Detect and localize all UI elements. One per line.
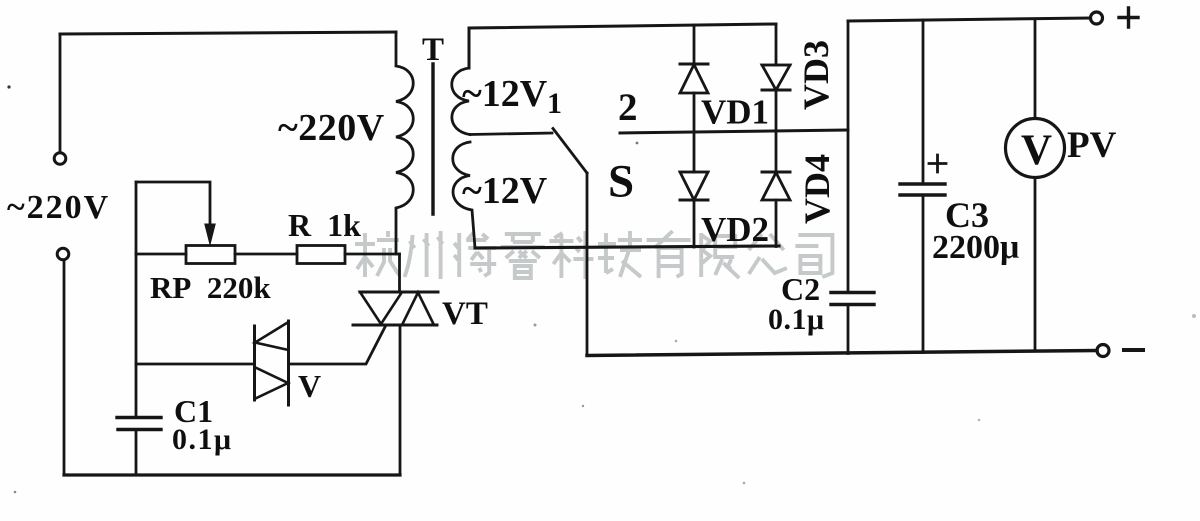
svg-text:0.1μ: 0.1μ: [172, 423, 233, 456]
scan speck: [7, 85, 1196, 493]
wire DC minus rail: [587, 351, 1097, 356]
transformer core: [431, 64, 434, 214]
wire RP left lead: [136, 253, 186, 256]
terminal plus: [1091, 12, 1103, 24]
wire PV column top: [1034, 19, 1037, 119]
wire C1 bottom lead: [135, 430, 138, 476]
diode VD3: [762, 65, 790, 90]
svg-text:1: 1: [547, 87, 562, 120]
wire VD1 to middle: [693, 93, 696, 172]
transformer secondary upper winding: [452, 68, 470, 135]
wire C2 bottom lead: [847, 305, 850, 354]
minus sign: [1124, 348, 1143, 352]
svg-text:~12V: ~12V: [462, 73, 548, 115]
wire RP to R: [235, 253, 297, 256]
wire RP wiper loop: [136, 182, 210, 227]
svg-text:~220V: ~220V: [278, 107, 385, 149]
svg-text:2200μ: 2200μ: [932, 229, 1019, 266]
wire VD3 to middle: [775, 90, 778, 172]
wire C2 top lead: [847, 130, 850, 292]
wire VD2 bottom: [693, 200, 696, 247]
resistor R body: [297, 246, 345, 264]
svg-text:~220V: ~220V: [7, 189, 110, 226]
wire VD3 column top: [775, 24, 778, 65]
svg-text:VT: VT: [442, 296, 488, 332]
wire VD4 bottom: [775, 200, 778, 247]
svg-text:S: S: [608, 156, 634, 208]
transformer secondary top corner: [469, 24, 776, 68]
diac V: [255, 321, 289, 405]
wire VD1 column top: [693, 25, 696, 64]
svg-text:RP 220k: RP 220k: [150, 270, 271, 305]
svg-text:2: 2: [618, 86, 638, 129]
wire triac bottom lead: [399, 325, 402, 475]
wire C3 column top: [922, 20, 925, 184]
svg-text:V: V: [1021, 127, 1052, 174]
capacitor C1: [117, 418, 161, 430]
triac VT: [353, 292, 438, 325]
diode VD1: [680, 64, 708, 93]
voltmeter PV: [1006, 119, 1065, 178]
diode VD4: [762, 172, 790, 200]
diode VD2: [680, 172, 708, 200]
wire DC plus corner and C2 column: [847, 21, 850, 130]
wire left input drop lower: [63, 260, 66, 475]
wire R right lead: [345, 253, 400, 256]
terminal minus: [1097, 345, 1109, 357]
capacitor C3 polarized: [900, 155, 946, 195]
svg-text:R 1k: R 1k: [288, 207, 361, 243]
svg-text:V: V: [298, 368, 321, 404]
transformer secondary lower winding: [453, 142, 475, 248]
wire main vertical to triac: [398, 254, 401, 292]
wire bottom left rail: [64, 473, 400, 476]
capacitor C2: [831, 293, 874, 305]
svg-text:VD2: VD2: [701, 210, 769, 249]
wire switch vertical: [586, 173, 589, 356]
svg-text:VD1: VD1: [701, 93, 769, 132]
svg-text:~12V: ~12V: [462, 170, 548, 212]
wire center tap to contact 1: [470, 133, 552, 135]
terminal input lower: [57, 248, 69, 260]
watermark: [355, 231, 832, 279]
wire C3 bottom lead: [922, 195, 925, 353]
wire DC plus rail: [848, 18, 1090, 21]
wire top AC rail: [60, 32, 396, 34]
svg-text:VD3: VD3: [796, 40, 836, 110]
svg-text:PV: PV: [1067, 125, 1117, 166]
svg-text:0.1μ: 0.1μ: [768, 303, 825, 336]
wire triac gate diagonal: [289, 327, 386, 364]
svg-text:T: T: [422, 32, 444, 68]
RP wiper arrowhead: [205, 224, 215, 245]
terminal input upper: [54, 153, 66, 165]
wire diac left lead: [136, 363, 255, 366]
svg-text:C2: C2: [781, 271, 820, 307]
wire secondary bottom AC: [475, 246, 779, 248]
wire PV bottom lead: [1034, 178, 1037, 352]
transformer T primary winding: [396, 32, 413, 254]
switch S arm: [553, 129, 587, 174]
plus sign: [1119, 8, 1138, 27]
wire left branch vertical: [135, 182, 138, 415]
svg-text:VD4: VD4: [797, 154, 837, 224]
wire bridge middle: [620, 130, 846, 133]
potentiometer RP body: [186, 246, 235, 264]
wire left input drop upper: [59, 34, 62, 152]
